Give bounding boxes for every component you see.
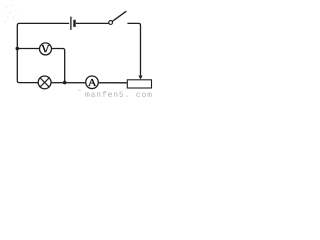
svg-text:manfen5. com: manfen5. com	[85, 91, 153, 99]
